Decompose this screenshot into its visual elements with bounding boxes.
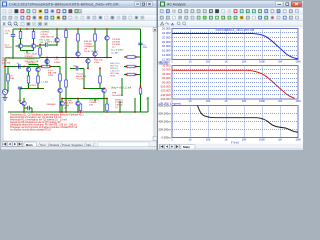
wire cap to mid — [140, 45, 142, 57]
wire R18 lead — [124, 74, 127, 76]
resistor R16 — [99, 76, 102, 83]
resistor R20 — [106, 104, 109, 111]
resistor R10 — [27, 76, 30, 83]
wire left rail down — [4, 58, 6, 89]
plot 3 grid — [172, 113, 298, 115]
transistor Q10 — [58, 88, 62, 92]
node n4 — [56, 28, 58, 30]
wire to R5 — [39, 45, 41, 48]
toolbar row 2 — [1, 15, 157, 21]
svg-text:200.000m: 200.000m — [159, 128, 172, 132]
wire tail wire — [5, 57, 24, 59]
transistor Q15 — [45, 59, 49, 63]
wire lead — [94, 29, 96, 34]
title bar icon — [2, 2, 7, 7]
window buttons — [276, 1, 302, 6]
resistor R11 — [37, 76, 40, 83]
wire R16 bottom — [99, 83, 101, 88]
right tab bar — [158, 144, 303, 150]
svg-text:1K: 1K — [224, 59, 227, 63]
node n21 — [23, 111, 25, 113]
svg-text:Power Supplies: Power Supplies — [62, 143, 83, 147]
resistor R13 — [42, 65, 50, 68]
svg-text:100K: 100K — [259, 99, 265, 103]
svg-text:A: A — [171, 21, 174, 26]
wire Q11 emitter — [103, 93, 105, 112]
svg-text:100: 100 — [206, 99, 211, 103]
svg-text:10M: 10M — [295, 99, 300, 103]
wire Q16 leads — [87, 58, 89, 68]
wire R17 lead2 — [135, 66, 141, 68]
wire C7 right — [79, 67, 84, 69]
node nb2 — [77, 98, 79, 100]
right scrollbar — [153, 27, 157, 141]
svg-text:1K: 1K — [224, 137, 227, 141]
transistor Q7 — [26, 67, 30, 71]
wire R20 top — [106, 98, 108, 104]
wire lead — [106, 29, 108, 36]
node n24 — [40, 66, 42, 68]
wire drop x84 — [83, 68, 85, 88]
tab bar — [1, 141, 157, 150]
capacitor C1 — [11, 35, 15, 37]
svg-text:10M: 10M — [295, 137, 300, 141]
plot 2 frame — [172, 66, 298, 100]
wire R18 lead2 — [135, 74, 141, 76]
svg-text:Q+= 3.3uA/C: Q+= 3.3uA/C — [111, 49, 124, 52]
svg-text:10K: 10K — [242, 99, 247, 103]
node n34 — [125, 74, 127, 76]
svg-text:26.000: 26.000 — [162, 27, 171, 31]
svg-text:400.000m: 400.000m — [159, 120, 172, 124]
svg-text:100: 100 — [206, 59, 211, 63]
node n3 — [12, 57, 14, 59]
node n14 — [106, 57, 108, 59]
wire C2 right wire — [48, 44, 57, 46]
svg-text:-60.000: -60.000 — [161, 76, 171, 80]
wire mirror top — [29, 65, 39, 68]
resistor R5 — [39, 48, 42, 55]
wire R14 bottom — [59, 81, 61, 88]
svg-text:18.000: 18.000 — [162, 44, 171, 48]
node n29 — [83, 87, 85, 89]
wire Q9 base wire — [20, 103, 22, 105]
svg-text:Main: Main — [183, 145, 190, 149]
node nb3 — [106, 98, 108, 100]
resistor R7 — [94, 34, 97, 41]
plot 1 blue curve — [172, 34, 298, 59]
node n10 — [94, 28, 96, 30]
node n9 — [77, 28, 79, 30]
wire out stub — [141, 97, 149, 112]
svg-text:14.000: 14.000 — [162, 53, 171, 57]
wire C1 to node — [12, 36, 14, 58]
toolbar row 3 — [1, 21, 157, 27]
node n8 — [65, 57, 67, 59]
wire mid low wire — [20, 87, 44, 89]
svg-text:1K: 1K — [224, 99, 227, 103]
wire tail extend — [5, 57, 40, 59]
svg-text:L7u/25B Q: L7u/25B Q — [28, 85, 39, 87]
wire left of R13 — [29, 66, 42, 68]
wire mid rail right — [74, 57, 112, 59]
plot client area — [158, 27, 303, 150]
svg-text:Main: Main — [26, 143, 33, 147]
wire R4 to mid rail — [65, 44, 67, 58]
svg-text:dBp(Db): dBp(Db) — [159, 61, 169, 65]
node n0 — [26, 28, 28, 30]
capacitor C2 — [46, 43, 48, 47]
wire mirror emitters — [29, 72, 39, 76]
transistor Q12 — [60, 101, 64, 105]
plot 1 frame — [172, 29, 298, 60]
wire drop to R14 — [59, 67, 61, 75]
left tab bar — [1, 141, 157, 147]
title bar icon — [160, 2, 165, 7]
window frame — [0, 0, 157, 150]
wire Q3 emitter — [56, 42, 58, 46]
wire mid rail left — [40, 57, 74, 59]
node n33 — [135, 66, 137, 68]
wire R9 lead — [7, 67, 9, 75]
node n37 — [61, 111, 63, 113]
node nb1 — [61, 98, 63, 100]
svg-text:F (Hz): F (Hz) — [231, 140, 239, 144]
transistor Q4 — [105, 36, 109, 40]
plot 3 frame — [172, 106, 298, 138]
wire bottom rail — [8, 111, 141, 113]
node n13 — [94, 57, 96, 59]
wire R7-Q6 — [94, 41, 96, 52]
svg-text:1M: 1M — [278, 99, 282, 103]
node n6 — [39, 44, 41, 46]
svg-text:N7B: N7B — [111, 76, 116, 78]
node n39 — [80, 111, 82, 113]
capacitor C3 — [138, 43, 142, 45]
node n2 — [33, 28, 35, 30]
wire R8 left wire — [124, 56, 127, 58]
node n15 — [125, 56, 127, 58]
wire c5 low stub — [19, 92, 21, 98]
transistor Q11 — [102, 88, 106, 92]
svg-text:100K: 100K — [259, 137, 265, 141]
node n11 — [106, 28, 108, 30]
wire vas drop — [46, 58, 48, 67]
svg-text:10K: 10K — [242, 137, 247, 141]
wire R4 bottom lead — [65, 38, 67, 45]
node n18 — [23, 66, 25, 68]
wire base wires Q1 Q2 — [16, 45, 40, 47]
resistor R9 — [7, 74, 10, 81]
node n17 — [4, 66, 6, 68]
ground — [3, 98, 8, 101]
wire fb wire — [5, 66, 29, 68]
svg-text:-100.000: -100.000 — [160, 84, 171, 88]
node n23 — [46, 57, 48, 59]
resistor R4 — [65, 31, 68, 38]
svg-text:24.000: 24.000 — [162, 31, 171, 35]
svg-text:10K: 10K — [242, 59, 247, 63]
svg-text:-40.000: -40.000 — [161, 72, 171, 76]
wire R16 top — [99, 68, 101, 76]
node n25 — [50, 66, 52, 68]
wire stub 95 — [94, 99, 96, 102]
svg-text:za vhodom izvoda izbira izbira: za vhodom izvoda izbira izbirala R5 10 — [10, 129, 52, 132]
node n32 — [125, 66, 127, 68]
svg-text:Ubep = +(0-1,1) mA: Ubep = +(0-1,1) mA — [111, 87, 132, 90]
wire input drop — [12, 29, 14, 34]
wire R6-Q5 — [77, 41, 79, 52]
node n31 — [103, 87, 105, 89]
window buttons — [135, 2, 153, 7]
svg-text:600.000m: 600.000m — [159, 112, 172, 116]
wire R9 bottom — [7, 81, 9, 92]
wire Q9 leads — [23, 98, 25, 112]
node n16 — [135, 56, 137, 58]
svg-text:L7SPL 1.406p: L7SPL 1.406p — [46, 42, 61, 44]
node n38 — [77, 111, 79, 113]
svg-text:p(PL(PI)) (Degrees): p(PL(PI)) (Degrees) — [159, 101, 182, 105]
node n27 — [65, 57, 67, 59]
toolbar row 1 — [1, 8, 157, 15]
node n20 — [37, 87, 39, 89]
wire C6 wires — [24, 108, 32, 112]
transistor Q9 — [22, 101, 26, 105]
wire lead — [77, 29, 79, 34]
wire right of R13 — [50, 66, 60, 68]
wire driver base rail — [62, 98, 107, 100]
transistor Q6 — [93, 52, 97, 56]
wire right cap lead — [140, 29, 142, 43]
node n7 — [56, 57, 58, 59]
MDI desktop background — [0, 0, 303, 150]
wire R1 to Q1 — [20, 39, 22, 44]
capacitor C7 — [76, 66, 78, 70]
wire Q3 collector — [56, 29, 58, 38]
wire R4 lead — [65, 29, 67, 31]
wire mirror to node — [29, 83, 39, 88]
svg-text:Text: Text — [40, 143, 46, 147]
node n41 — [134, 111, 136, 113]
toolbar row 1 — [158, 8, 303, 15]
svg-text:22.000: 22.000 — [162, 35, 171, 39]
svg-text:Models: Models — [50, 143, 60, 147]
node n5 — [65, 28, 67, 30]
svg-text:AC Analysis: AC Analysis — [167, 3, 186, 7]
resistor R14 — [59, 74, 62, 81]
wire sense drop — [121, 78, 123, 96]
wire Q12 leads — [61, 98, 63, 112]
capacitor C5 — [18, 87, 22, 89]
svg-text:Info: Info — [86, 143, 91, 147]
resistor R18 — [127, 73, 135, 76]
wire C2 left wire — [40, 44, 45, 46]
Main tab — [181, 144, 195, 149]
svg-text:-120.000: -120.000 — [160, 89, 171, 93]
node n12 — [77, 57, 79, 59]
plot 1 grid — [172, 32, 298, 34]
page tabs — [24, 142, 37, 147]
wire top rail V+ — [13, 28, 141, 30]
svg-text:-140.000: -140.000 — [160, 93, 171, 97]
node n19 — [28, 87, 30, 89]
node n40 — [106, 111, 108, 113]
wire V1 to gnd — [4, 95, 6, 98]
schematic canvas — [1, 27, 153, 141]
wire R17 lead — [124, 66, 127, 68]
plot 3 black curve — [198, 106, 299, 133]
title bar — [158, 1, 303, 8]
resistor R17 — [127, 65, 135, 68]
wire Q13 leads — [77, 98, 79, 112]
svg-text:1M: 1M — [278, 137, 282, 141]
svg-text:100K: 100K — [259, 59, 265, 63]
transistor Q13 — [76, 101, 80, 105]
wire C5 down — [19, 89, 21, 103]
wire right rail — [140, 29, 142, 112]
node n30 — [99, 67, 101, 69]
resistor R6 — [77, 34, 80, 41]
transistor Q8 — [36, 67, 40, 71]
transistor Q3 — [55, 38, 59, 42]
wire stub — [80, 103, 82, 105]
svg-text:100n: 100n — [73, 66, 79, 68]
toolbar row 3 — [158, 21, 303, 27]
svg-text:10M: 10M — [295, 59, 300, 63]
wire R8 right wire — [135, 56, 141, 58]
node n22 — [31, 111, 33, 113]
wire Q10 emitter — [59, 93, 61, 112]
svg-text:20.000: 20.000 — [162, 40, 171, 44]
transistor Q2 — [31, 44, 35, 48]
wire Q4 emitter — [106, 40, 108, 57]
title bar — [1, 1, 157, 8]
svg-text:2N50B6C: 2N50B6C — [47, 104, 57, 106]
node n26 — [59, 111, 61, 113]
transistor Q1 — [18, 44, 22, 48]
wire Q15 emitter — [46, 64, 48, 67]
plot 2 red curve — [172, 70, 295, 98]
svg-text:16.000: 16.000 — [162, 49, 171, 53]
resistor R2 — [32, 32, 35, 39]
transistor Q16 — [86, 59, 90, 63]
capacitor C4 — [18, 64, 20, 68]
node nq16 — [87, 67, 89, 69]
svg-text:-160.000: -160.000 — [160, 97, 171, 101]
capacitor C6 — [28, 106, 30, 110]
svg-text:L 1.40b: L 1.40b — [41, 81, 49, 83]
node n28 — [65, 111, 67, 113]
svg-text:100: 100 — [206, 137, 211, 141]
resistor R8 — [127, 56, 135, 59]
wire R5 bottom — [39, 55, 41, 58]
wire drop 120 — [119, 101, 121, 112]
node n36 — [140, 85, 142, 87]
node n42 — [119, 111, 121, 113]
svg-text:C:\AC2.2\DzT1\Prenos\KSITD~B6\: C:\AC2.2\DzT1\Prenos\KSITD~B6\forum KSIT… — [9, 3, 119, 7]
toolbar row 2 — [158, 15, 303, 21]
node n1 — [20, 28, 22, 30]
wire drop R15 — [65, 58, 67, 81]
svg-text:1M: 1M — [278, 59, 282, 63]
node n35 — [135, 74, 137, 76]
wire right drop — [134, 98, 136, 112]
resistor R15 — [65, 80, 68, 87]
wire R1 top lead — [20, 29, 22, 32]
wire R2 top lead — [33, 29, 35, 32]
svg-text:U+ 4BV: U+ 4BV — [111, 53, 119, 55]
wire C7 left — [70, 67, 75, 69]
resistor R1 — [19, 32, 22, 39]
resistor R19 — [79, 104, 82, 111]
transistor Q5 — [76, 52, 80, 56]
left inner strip — [1, 27, 4, 141]
plot 2 grid — [172, 69, 298, 71]
svg-text:0.000m: 0.000m — [162, 136, 172, 140]
svg-text:KSITD-BIRNI-A_ NKvs-VP2.CIR: KSITD-BIRNI-A_ NKvs-VP2.CIR — [216, 28, 255, 32]
svg-text:-20.000: -20.000 — [161, 68, 171, 72]
wire R15 bottom — [65, 87, 67, 112]
svg-text:-80.000: -80.000 — [161, 80, 171, 84]
wire low wire right — [84, 87, 103, 89]
source V1 — [2, 89, 7, 94]
resistor Rz load — [139, 88, 142, 94]
wire emitter join — [21, 48, 34, 53]
wire R2 to Q2 — [33, 39, 35, 44]
